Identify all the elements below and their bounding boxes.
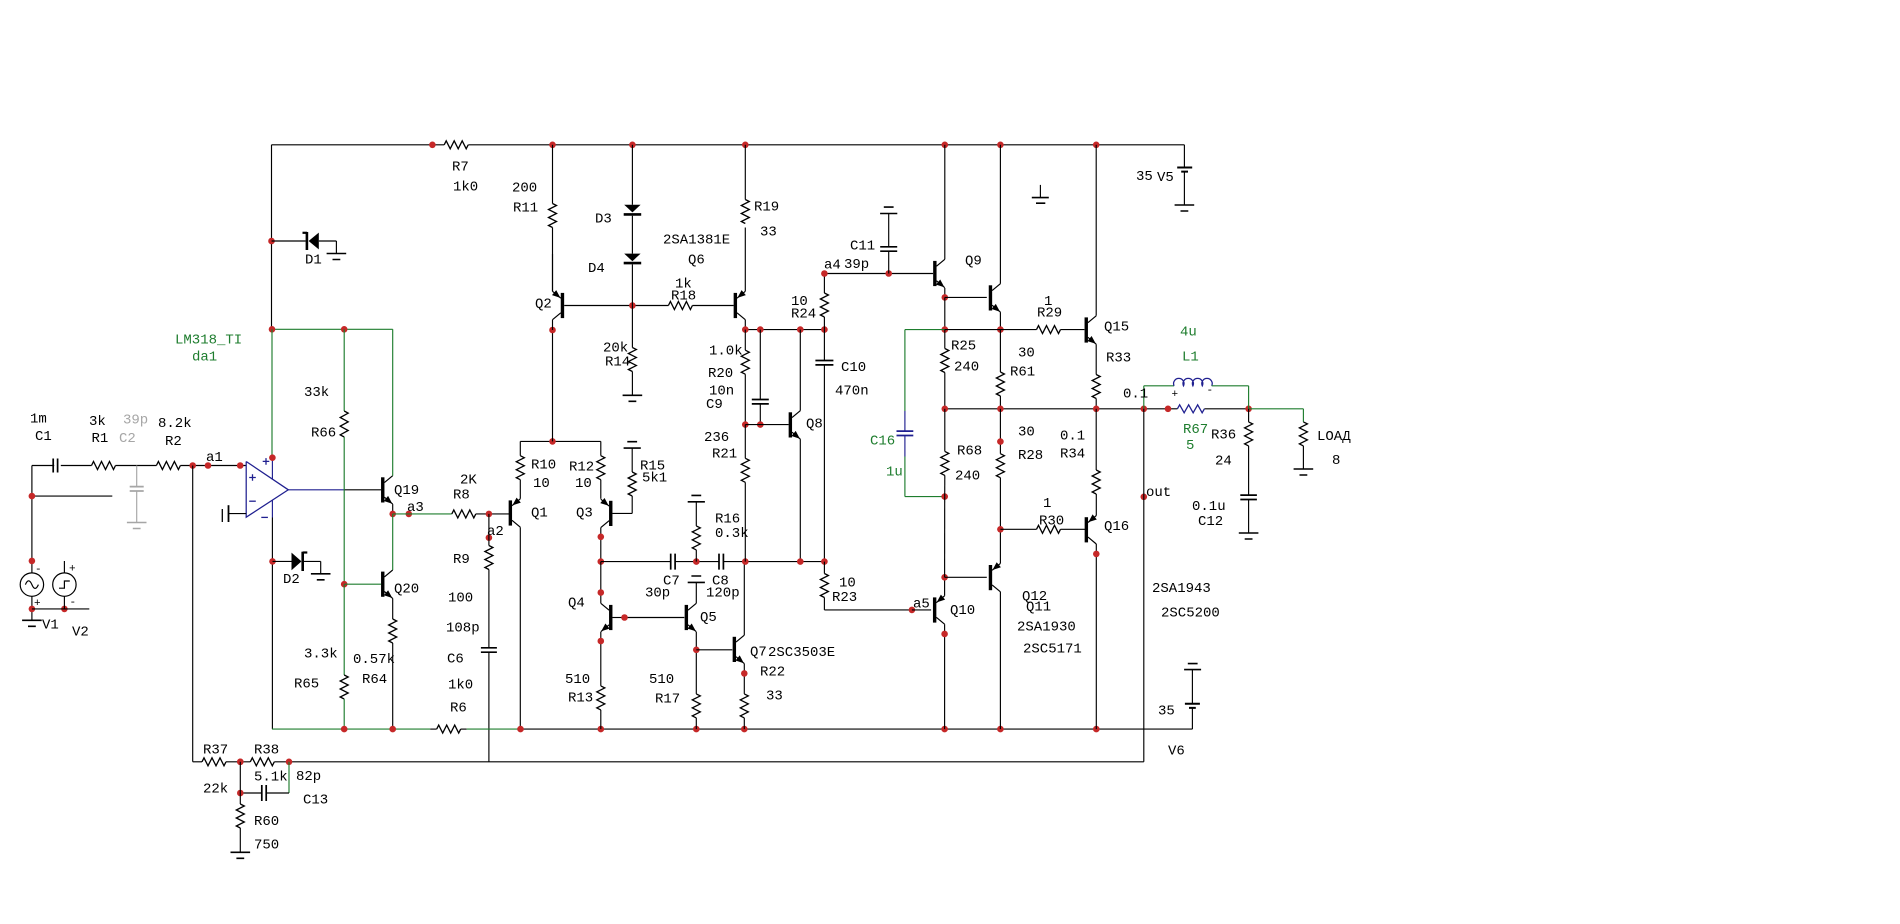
resistor R61 [996, 330, 1004, 409]
resistor R15 [628, 448, 636, 496]
node V1 bottom [29, 606, 68, 613]
resistor R16 [692, 502, 700, 561]
resistor R30 [1037, 525, 1061, 533]
transistor Q15 [1086, 316, 1096, 344]
svg-text:Q9: Q9 [965, 254, 982, 270]
wire Q8 collector [799, 330, 801, 411]
transistor Q2 [552, 290, 562, 320]
resistor R64 [389, 619, 397, 643]
label R18 [671, 277, 696, 305]
svg-text:R1: R1 [92, 431, 109, 447]
wire C16 tap green [905, 329, 945, 331]
label R21 [704, 430, 737, 463]
svg-text:5: 5 [1186, 438, 1194, 454]
node out row [942, 406, 1252, 413]
resistor R11 [549, 204, 557, 228]
label R17 [649, 672, 680, 708]
svg-text:0.1u: 0.1u [1192, 499, 1226, 515]
label D2 [283, 572, 300, 588]
label R28 [1018, 425, 1043, 465]
capacitor C1 [53, 459, 57, 473]
svg-text:33k: 33k [304, 385, 329, 401]
op-amp vplus marker [263, 458, 270, 465]
svg-text:C16: C16 [870, 434, 895, 450]
wire bus green mid [467, 728, 521, 730]
label R13 [565, 672, 593, 707]
node D1 junction [268, 238, 275, 245]
svg-text:30: 30 [1018, 425, 1035, 441]
label a4 [824, 239, 875, 274]
label V1 polarity [34, 564, 42, 610]
wire R33 bottom [1095, 399, 1097, 409]
svg-text:2K: 2K [460, 473, 477, 489]
svg-text:Q5: Q5 [700, 610, 717, 626]
label L1 value [1123, 385, 1213, 403]
ground V5 [1175, 205, 1195, 211]
svg-text:4u: 4u [1180, 325, 1197, 341]
svg-text:2SA1930: 2SA1930 [1017, 620, 1076, 636]
svg-text:R38: R38 [254, 743, 279, 759]
label R30 [1039, 496, 1064, 530]
wire R12 leads [600, 441, 602, 498]
label out [1146, 485, 1171, 501]
node Q3 collector [598, 534, 605, 565]
svg-text:R61: R61 [1010, 365, 1035, 381]
wire V1 bottom [31, 596, 33, 620]
label R65 [294, 647, 338, 693]
svg-text:C12: C12 [1198, 514, 1223, 530]
op-amp input plus [249, 474, 256, 481]
wire Q1 emitter up [519, 480, 521, 499]
label R24 [791, 294, 816, 323]
svg-text:R24: R24 [791, 307, 816, 323]
wire supply drop to op-amp [271, 329, 273, 457]
ground C11 (up) [880, 207, 897, 213]
wire Q19 collector [392, 329, 394, 475]
svg-text:R36: R36 [1211, 428, 1236, 444]
label a1 [206, 450, 223, 466]
label L1 [1180, 325, 1199, 366]
op-amp vminus stub [271, 500, 273, 517]
wire Q16 emitter up [1095, 494, 1097, 516]
svg-text:10: 10 [575, 476, 592, 492]
label Q4 [568, 596, 585, 612]
capacitor C8 [719, 554, 723, 570]
wire D2 [273, 561, 321, 573]
wire R65 top [343, 584, 345, 675]
wire bus black [521, 728, 1193, 730]
resistor R12 [597, 456, 605, 480]
label Q6 type [663, 233, 730, 269]
svg-text:5k1: 5k1 [642, 471, 667, 487]
svg-text:2SC5171: 2SC5171 [1023, 642, 1082, 658]
wire D3 top [631, 145, 633, 205]
wire Q7 base [696, 649, 732, 651]
svg-text:C10: C10 [841, 360, 866, 376]
label a3 [407, 500, 424, 516]
capacitor C16 (navy) [897, 411, 914, 457]
wire R14 bottom [631, 372, 633, 396]
svg-text:510: 510 [565, 672, 590, 688]
svg-text:C6: C6 [447, 652, 464, 668]
wire bus R6 leads [430, 728, 467, 730]
wire Q10 emitter up [944, 577, 946, 596]
resistor R7 [444, 141, 468, 149]
label V1 [42, 618, 59, 634]
transistor Q7 [734, 635, 744, 663]
diode D4 [624, 254, 642, 264]
wire bus green left [272, 728, 430, 730]
svg-text:0.3k: 0.3k [715, 526, 749, 542]
wire R17 bottom [695, 718, 697, 729]
ground LOAD [1294, 469, 1314, 475]
resistor R36 [1245, 409, 1253, 495]
op-amp inverting input terminal [222, 505, 246, 522]
ground V1 [22, 620, 42, 626]
wire rail R10-R12 [520, 440, 601, 442]
label R12 [569, 460, 594, 493]
wire Q9 emitter [944, 288, 946, 297]
node R60 top [237, 759, 244, 797]
svg-text:C2: C2 [119, 431, 136, 447]
resistor R25 [941, 330, 949, 409]
svg-text:240: 240 [954, 360, 979, 376]
svg-text:a2: a2 [487, 524, 504, 540]
wire Q3 base [612, 496, 632, 513]
ground R15 (up) [624, 442, 641, 448]
label R34 [1060, 429, 1085, 463]
diode D1 [303, 232, 319, 250]
svg-text:R6: R6 [450, 701, 467, 717]
label C1 [30, 412, 52, 446]
wire Q8 base [745, 424, 788, 426]
label R66 [304, 385, 336, 442]
diode D3 [624, 205, 642, 215]
wire Q5 collector [695, 583, 697, 603]
svg-text:33: 33 [766, 689, 783, 705]
wire C16-R68 join [944, 497, 946, 578]
resistor R29 [1037, 326, 1061, 334]
wire Q8 emitter [799, 439, 801, 561]
svg-text:2SC3503E: 2SC3503E [768, 645, 835, 661]
svg-text:0.1: 0.1 [1060, 429, 1085, 445]
svg-text:Q19: Q19 [394, 483, 419, 499]
label a5 [913, 597, 930, 613]
wire a4 row [824, 273, 933, 275]
node mid rail [549, 438, 556, 445]
capacitor C2 (gray) [127, 466, 147, 529]
svg-text:24: 24 [1215, 454, 1232, 470]
svg-text:R64: R64 [362, 672, 387, 688]
svg-text:8.2k: 8.2k [158, 416, 192, 432]
label Q16 [1104, 519, 1129, 535]
svg-text:2SA1381E: 2SA1381E [663, 233, 730, 249]
svg-text:R8: R8 [453, 488, 470, 504]
diode D2 [292, 552, 308, 571]
node Q10 emitter [941, 574, 948, 581]
node C7 row [693, 558, 828, 565]
svg-text:-: - [70, 597, 77, 609]
svg-text:LOAД: LOAД [1317, 429, 1351, 445]
svg-text:V6: V6 [1168, 744, 1185, 760]
node C16 join [941, 493, 948, 500]
label C7 [645, 574, 680, 602]
svg-text:R29: R29 [1037, 306, 1062, 322]
source V1 [20, 573, 43, 596]
svg-text:R21: R21 [712, 447, 737, 463]
node C9 bottom [742, 421, 764, 428]
wire Q20 emitter [392, 598, 394, 619]
wire R65 bottom [343, 699, 345, 729]
svg-text:Q11: Q11 [1026, 600, 1051, 616]
ground V6 (up) [1184, 664, 1201, 670]
node D2 [269, 558, 276, 565]
svg-text:Q7: Q7 [750, 645, 767, 661]
label Q9 [965, 254, 982, 270]
node Q7 emitter [741, 670, 748, 677]
node R28 [997, 438, 1004, 532]
wire pre-driver emitter [999, 312, 1001, 330]
label R67 [1183, 422, 1208, 454]
wire crow drop [600, 562, 602, 604]
label R19 [754, 200, 779, 241]
svg-text:C13: C13 [303, 793, 328, 809]
svg-text:R60: R60 [254, 814, 279, 830]
label R60 [254, 814, 279, 854]
wire R64 bottom [392, 643, 394, 729]
svg-text:C9: C9 [706, 397, 723, 413]
wire Q10 base [912, 609, 931, 611]
wire Q3 collector [600, 528, 602, 562]
wire Q15 emitter [1095, 344, 1097, 374]
op-amp input minus [249, 500, 256, 502]
label Q7 [750, 645, 835, 662]
wire Q5 emitter [695, 632, 697, 694]
svg-text:R7: R7 [452, 160, 469, 176]
label Q12 Q11 [1017, 589, 1082, 658]
wire Q6 collector [744, 320, 746, 330]
svg-text:108p: 108p [446, 621, 480, 637]
svg-text:Q20: Q20 [394, 582, 419, 598]
resistor R1 [92, 462, 116, 470]
wire out to load green [1249, 408, 1304, 410]
svg-text:0.57k: 0.57k [353, 652, 395, 668]
svg-text:R14: R14 [605, 355, 630, 371]
node Q4 emitter [598, 638, 605, 645]
svg-text:2SC5200: 2SC5200 [1161, 606, 1220, 622]
label R25 [951, 339, 979, 376]
svg-text:-: - [35, 564, 42, 576]
node a5 [909, 607, 916, 614]
resistor R28 [996, 409, 1004, 530]
capacitor C13 [262, 785, 266, 801]
node input drop [29, 493, 36, 564]
node Q16 collector [1093, 551, 1100, 558]
svg-text:R67: R67 [1183, 422, 1208, 438]
wire input row [32, 465, 246, 467]
svg-text:236: 236 [704, 430, 729, 446]
svg-text:L1: L1 [1182, 350, 1199, 366]
svg-text:R34: R34 [1060, 447, 1085, 463]
capacitor C7 [671, 554, 675, 570]
svg-text:R9: R9 [453, 552, 470, 568]
svg-text:30p: 30p [645, 586, 670, 602]
wire op-amp output [288, 489, 381, 491]
svg-text:35: 35 [1158, 704, 1175, 720]
node op-amp vplus [269, 454, 276, 461]
svg-text:39p: 39p [123, 413, 148, 429]
node a4 [821, 270, 892, 277]
label C13 [296, 769, 328, 809]
label Q15 [1104, 320, 1129, 336]
svg-text:30: 30 [1018, 346, 1035, 362]
wire Q2 emitter up [552, 254, 554, 291]
svg-text:1u: 1u [886, 465, 903, 481]
wire Q12 base [945, 576, 987, 578]
label V6 [1158, 704, 1185, 760]
wire R9 to C6 [488, 570, 490, 648]
svg-text:Q3: Q3 [576, 506, 593, 522]
label Q5 [700, 610, 717, 626]
node Q5 emitter [693, 647, 700, 654]
wire feedback row [193, 761, 1144, 763]
label Q3 [576, 506, 593, 522]
node Q2 collector [549, 327, 556, 334]
transistor Q20 [383, 570, 393, 598]
svg-text:a1: a1 [206, 450, 223, 466]
wire R14 top [631, 306, 633, 348]
resistor R17 [692, 694, 700, 718]
wire Q12 collector [999, 592, 1001, 729]
transistor Q6 [735, 290, 745, 320]
resistor R66 [340, 411, 348, 437]
svg-text:1k0: 1k0 [453, 180, 478, 196]
label V2 [72, 625, 89, 641]
wire R66 bottom to Q20 base [343, 437, 345, 584]
inductor L1 branch [1144, 378, 1249, 408]
wire top positive rail [272, 144, 1185, 146]
transistor Q10 [935, 595, 945, 625]
svg-text:Q8: Q8 [806, 417, 823, 433]
svg-text:R66: R66 [311, 426, 336, 442]
svg-text:R65: R65 [294, 677, 319, 693]
ground R60 [231, 852, 251, 858]
wire R60 [236, 762, 244, 852]
svg-text:750: 750 [254, 838, 279, 854]
resistor R18 [668, 302, 692, 310]
svg-text:V5: V5 [1157, 170, 1174, 186]
label D4 [588, 261, 605, 277]
ground floating [1032, 185, 1049, 203]
label Q2 [535, 297, 552, 313]
op-amp vplus stub [271, 458, 273, 480]
resistor R68 [941, 409, 949, 497]
svg-text:D3: D3 [595, 212, 612, 228]
svg-text:R23: R23 [832, 590, 857, 606]
resistor R23 [820, 562, 912, 610]
label R36 [1211, 428, 1236, 470]
ground C12 [1239, 533, 1259, 539]
label R2 [158, 416, 192, 450]
svg-text:R10: R10 [531, 458, 556, 474]
label R8 [453, 473, 477, 504]
wire pre-driver collector [999, 145, 1001, 284]
wire a3 row [393, 513, 510, 515]
svg-text:R11: R11 [513, 201, 538, 217]
wire Q9 collector [944, 145, 946, 259]
capacitor C9 [752, 330, 769, 425]
wire C16 top green [904, 330, 906, 411]
node D4 bottom [629, 302, 636, 309]
svg-text:R2: R2 [165, 434, 182, 450]
label V5 [1136, 169, 1174, 186]
wire Q9-Q repeater base [945, 296, 987, 298]
wire a1 feedback drop [192, 466, 194, 762]
wire R66 top [343, 329, 345, 411]
label Q8 [806, 417, 823, 433]
label R61 [1010, 346, 1035, 381]
svg-text:8: 8 [1332, 453, 1340, 469]
svg-text:1k0: 1k0 [448, 678, 473, 694]
svg-text:Q16: Q16 [1104, 519, 1129, 535]
node Q20 base [341, 581, 348, 588]
node Q9 emitter [942, 294, 949, 301]
svg-text:out: out [1146, 485, 1171, 501]
node Q4 base [621, 614, 628, 621]
svg-text:2SA1943: 2SA1943 [1152, 581, 1211, 597]
label R9 C6 values [446, 591, 480, 717]
node Q10 collector [941, 631, 948, 638]
transistor Q (pre-driver) [990, 284, 1000, 312]
svg-text:470n: 470n [835, 384, 869, 400]
wire Q4 emitter [600, 632, 602, 686]
svg-text:3.3k: 3.3k [304, 647, 338, 663]
svg-text:Q4: Q4 [568, 596, 585, 612]
op-amp da1 triangle [246, 462, 288, 518]
label a2 [487, 524, 504, 540]
label R23 [832, 576, 857, 607]
label R64 [353, 652, 395, 688]
capacitor C6 [481, 648, 497, 652]
svg-text:V1: V1 [42, 618, 59, 634]
wire Q2 base row [564, 305, 734, 307]
svg-text:Q15: Q15 [1104, 320, 1129, 336]
wire R10 top [519, 441, 521, 455]
label Q1 [531, 506, 548, 522]
resistor R21 [741, 425, 749, 562]
svg-text:33: 33 [760, 225, 777, 241]
svg-text:1: 1 [1043, 496, 1051, 512]
wire out row [945, 408, 1249, 410]
svg-text:R28: R28 [1018, 448, 1043, 464]
wire Q7 emitter [743, 664, 745, 694]
junction dots top rail [429, 142, 1099, 149]
label LM318_TI [175, 333, 242, 366]
svg-text:R37: R37 [203, 743, 228, 759]
battery V5 [1177, 145, 1192, 205]
node out net [1141, 494, 1148, 501]
ground D1 [327, 254, 347, 260]
resistor R6 [437, 725, 461, 733]
wire op-amp vminus drop [271, 518, 273, 730]
resistor R14 [628, 348, 636, 372]
wire R19 top [744, 145, 746, 200]
svg-text:100: 100 [448, 591, 473, 607]
svg-text:200: 200 [512, 181, 537, 197]
svg-text:D4: D4 [588, 261, 605, 277]
label C12 [1192, 499, 1226, 530]
label D1 [305, 253, 322, 269]
